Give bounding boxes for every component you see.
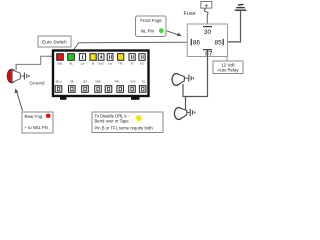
green indicator dot <box>159 28 164 33</box>
bottom row pin labels <box>56 79 146 83</box>
rear fog lamp (red) <box>7 69 45 85</box>
svg-text:Rear Fog: Rear Fog <box>25 114 44 119</box>
pin square X1 (white) <box>129 54 135 61</box>
wire NSL pin to rear fog lamp <box>16 56 53 70</box>
bottom row pin squares <box>55 86 146 93</box>
ground lamp 2 <box>187 112 190 114</box>
pin square b8 <box>139 86 146 93</box>
pin square 3l3 <box>82 86 89 93</box>
svg-text:XI: XI <box>131 61 134 65</box>
pin square 58d <box>55 86 62 93</box>
wire rear lamp stem <box>15 64 17 70</box>
svg-text:+ to NSL Pin: + to NSL Pin <box>25 125 49 130</box>
svg-text:51: 51 <box>142 79 146 83</box>
svg-text:Pin B or TFL some require both: Pin B or TFL some require both <box>95 126 154 131</box>
svg-text:Bend over or Tape: Bend over or Tape <box>95 118 130 123</box>
ground rear lamp <box>20 75 24 77</box>
svg-text:Ground: Ground <box>30 81 46 86</box>
pin square TFL (yellow) <box>118 54 124 61</box>
front fogs label box <box>136 16 167 37</box>
pin square b7 <box>129 86 136 93</box>
svg-text:30: 30 <box>204 29 212 36</box>
relay U1 <box>187 24 227 57</box>
svg-text:NSL: NSL <box>57 61 63 65</box>
svg-text:Auto Relay: Auto Relay <box>217 68 239 73</box>
fuse plus terminal <box>201 1 212 10</box>
wire NL pin to relay pin 86 <box>71 42 191 53</box>
arrow front fogs to wire <box>167 31 182 36</box>
svg-text:56B: 56B <box>95 79 100 83</box>
top row pin labels <box>57 61 144 65</box>
front fog lamp 2 <box>174 108 194 120</box>
pin 30 bar <box>203 26 212 28</box>
pin square 58 <box>69 86 76 93</box>
pin square NL (green) <box>68 54 75 61</box>
mounting tab right <box>131 97 140 100</box>
svg-text:3l3: 3l3 <box>83 79 87 83</box>
svg-text:Fuse: Fuse <box>184 11 196 17</box>
svg-text:86: 86 <box>193 39 201 46</box>
svg-text:87: 87 <box>205 50 213 57</box>
svg-text:Front Fogs: Front Fogs <box>140 18 162 23</box>
svg-text:TFL: TFL <box>118 61 124 65</box>
pin square 56B <box>95 86 102 93</box>
top row pin squares <box>57 54 145 61</box>
wire stub into switch left edge <box>49 55 54 57</box>
wire relay 87 to fog lamps <box>183 50 208 97</box>
svg-text:NL Pin: NL Pin <box>141 28 155 33</box>
red indicator dot <box>46 114 51 119</box>
svg-text:X2: X2 <box>140 61 144 65</box>
pin square Lw2 (white) <box>107 54 113 61</box>
pin square Lw (white) <box>79 54 85 61</box>
switch connector block <box>53 51 149 100</box>
12 volt auto relay label box <box>213 57 243 74</box>
yellow indicator dot <box>135 115 142 122</box>
svg-text:SxO: SxO <box>98 61 105 65</box>
svg-text:B: B <box>92 61 94 65</box>
svg-text:NL: NL <box>69 61 73 65</box>
svg-text:Euro Switch: Euro Switch <box>42 40 67 45</box>
front fog lamp 1 <box>172 74 193 86</box>
pin square b5 <box>105 86 112 93</box>
mounting tab left <box>60 97 67 100</box>
arrow rear fog box to lamp <box>15 88 23 111</box>
pin 85 bar <box>222 39 224 46</box>
svg-text:57A: 57A <box>130 79 135 83</box>
glyph marks inside bottom squares <box>57 87 144 91</box>
rear fog label box <box>22 112 53 133</box>
fuse element <box>204 8 208 15</box>
pin square SxO (white) <box>98 54 104 61</box>
chassis ground top right <box>235 4 247 10</box>
pin 86 bar <box>190 39 192 46</box>
svg-text:58 d: 58 d <box>56 79 62 83</box>
pin square B (yellow) <box>90 54 96 61</box>
euro switch label box <box>38 36 71 47</box>
pin square b6 <box>117 86 124 93</box>
wire fuse to relay pin 30 <box>206 15 208 27</box>
svg-text:85: 85 <box>214 39 222 46</box>
pin square X2 (white) <box>139 54 145 61</box>
glyph marks inside top white squares <box>82 55 144 59</box>
wire branch to lamp 2 <box>185 97 187 111</box>
wire ground to relay pin 85 <box>227 10 241 42</box>
ground lamp 1 <box>184 77 188 79</box>
pin square NSL (red) <box>57 54 64 61</box>
DRL note box <box>92 112 163 133</box>
svg-text:58: 58 <box>70 79 74 83</box>
pin 87 bar <box>203 49 212 51</box>
svg-text:VRL: VRL <box>114 79 120 83</box>
